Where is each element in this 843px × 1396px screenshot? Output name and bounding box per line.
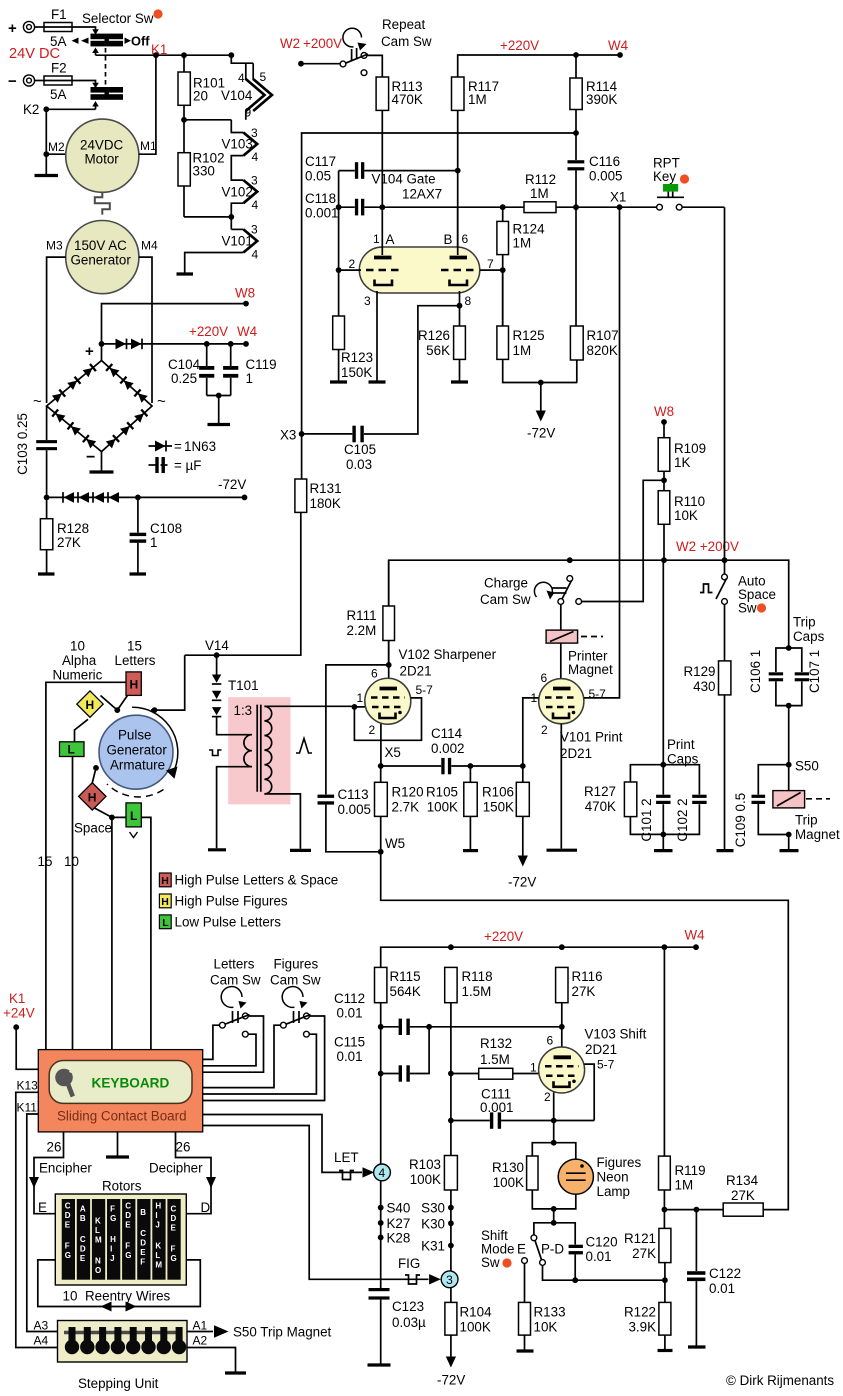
stepping magnet 6 xyxy=(141,1327,155,1354)
svg-text:L: L xyxy=(95,1226,100,1235)
fuse F2 xyxy=(35,61,72,103)
svg-text:4: 4 xyxy=(238,71,245,85)
svg-text:3: 3 xyxy=(446,1273,453,1287)
T101 primary xyxy=(217,717,252,849)
svg-text:10: 10 xyxy=(64,854,79,869)
svg-text:~: ~ xyxy=(33,393,42,410)
resistor R131 xyxy=(217,434,342,655)
svg-text:F1: F1 xyxy=(51,7,67,22)
svg-text:Magnet: Magnet xyxy=(795,827,840,842)
node K2 xyxy=(43,106,49,112)
svg-text:15: 15 xyxy=(38,854,53,869)
node -72V end xyxy=(242,495,248,501)
orange dot auto space xyxy=(757,603,766,612)
figures cam bars xyxy=(294,1011,300,1023)
svg-text:+200V: +200V xyxy=(303,36,342,51)
node R121 R122 xyxy=(662,1277,668,1283)
svg-text:5A: 5A xyxy=(50,87,66,102)
svg-text:E: E xyxy=(125,1221,131,1230)
wire W2 to repeat cam switch xyxy=(301,63,340,65)
svg-text:Charge: Charge xyxy=(484,576,528,591)
node pin2 C111 xyxy=(551,1118,557,1124)
svg-text:0.001: 0.001 xyxy=(480,1100,514,1115)
node -72V junction xyxy=(538,380,544,386)
svg-text:1M: 1M xyxy=(513,343,532,358)
wire yellow diamond to rim dot xyxy=(101,696,118,711)
terminal - (24V DC negative) xyxy=(8,73,35,90)
wire X1 row xyxy=(364,206,724,208)
svg-text:1N63: 1N63 xyxy=(184,439,216,454)
wire C117 C118 left link xyxy=(338,171,340,208)
wire F2 to selector switch lower xyxy=(72,81,96,85)
svg-text:+: + xyxy=(85,343,94,360)
node caps join xyxy=(216,393,222,399)
svg-text:−: − xyxy=(86,449,95,466)
wire V103 pin5-7 box xyxy=(584,1064,594,1120)
node trip caps bottom xyxy=(786,703,792,709)
wire auto space to R129 xyxy=(724,604,726,661)
svg-text:27K: 27K xyxy=(572,984,596,999)
ground R123 xyxy=(330,380,347,383)
contact H figures (yellow diamond) xyxy=(77,691,103,717)
svg-text:C: C xyxy=(171,1205,177,1214)
selector switch Sw1 lower section xyxy=(91,83,124,100)
legend capacitor uF xyxy=(149,457,202,473)
V104 pin6 lead xyxy=(457,207,459,255)
svg-text:V104: V104 xyxy=(221,88,253,103)
svg-text:150K: 150K xyxy=(483,800,514,815)
svg-text:-72V: -72V xyxy=(508,875,536,890)
V101 internals xyxy=(545,689,578,719)
orange dot selector xyxy=(153,9,162,18)
svg-text:10K: 10K xyxy=(674,508,698,523)
resistor R134 xyxy=(723,1173,763,1216)
wire charge to printer magnet xyxy=(560,604,562,630)
svg-text:H: H xyxy=(161,875,169,887)
T101 core xyxy=(257,705,261,792)
svg-text:C122: C122 xyxy=(709,1266,741,1281)
node armature rim bottom-left xyxy=(93,765,99,771)
resistor R130 xyxy=(492,1156,554,1209)
svg-text:1M: 1M xyxy=(513,236,532,251)
svg-text:Print: Print xyxy=(667,737,695,752)
svg-text:E: E xyxy=(65,1221,71,1230)
wire +220V bottom rail xyxy=(381,947,696,967)
terminal + (24V DC positive) xyxy=(8,20,35,37)
legend H high pulse figures xyxy=(159,894,288,909)
wire letters upper contact to keyboard xyxy=(203,1016,264,1072)
node C118 left xyxy=(336,204,342,210)
svg-text:~: ~ xyxy=(157,393,166,410)
svg-text:V103: V103 xyxy=(222,137,253,152)
node K31 xyxy=(448,1243,454,1249)
arrow LET xyxy=(363,1167,375,1177)
node pin8 xyxy=(457,303,463,309)
pulse glyph auto space xyxy=(700,584,713,593)
svg-text:R110: R110 xyxy=(674,494,705,509)
diode D7 xyxy=(212,655,221,684)
capacitor C102 xyxy=(675,795,707,842)
node pin1 line X1 row xyxy=(379,204,385,210)
ground R133 xyxy=(517,1349,534,1352)
svg-text:G: G xyxy=(171,1254,177,1263)
wire selector to K1 rail xyxy=(95,50,97,55)
svg-text:D: D xyxy=(125,1211,131,1220)
svg-text:R118: R118 xyxy=(462,969,493,984)
wire M3 to bridge left xyxy=(47,257,66,403)
svg-text:26: 26 xyxy=(47,1140,62,1155)
svg-text:150K: 150K xyxy=(341,365,372,380)
node S50 xyxy=(786,762,792,768)
svg-text:K: K xyxy=(95,1217,101,1226)
svg-text:R122: R122 xyxy=(624,1305,656,1320)
diode D2 xyxy=(131,339,142,350)
svg-text:2: 2 xyxy=(369,723,376,737)
svg-text:Trip: Trip xyxy=(795,813,818,828)
arrow -72V V104 xyxy=(527,383,555,441)
wire heater chain junction to V103 xyxy=(231,120,243,133)
capacitor C104 xyxy=(168,344,214,396)
svg-text:27K: 27K xyxy=(731,1188,755,1203)
rotor column 2 xyxy=(77,1199,90,1280)
spike glyph T101 right xyxy=(296,739,312,754)
svg-text:R127: R127 xyxy=(584,784,616,799)
svg-text:K30: K30 xyxy=(421,1216,445,1231)
svg-text:R116: R116 xyxy=(572,969,603,984)
resistor R120 xyxy=(375,766,424,852)
svg-text:Caps: Caps xyxy=(793,629,825,644)
svg-text:M4: M4 xyxy=(141,239,158,253)
node C112 right link xyxy=(426,1024,432,1030)
svg-text:J: J xyxy=(155,1221,159,1230)
node R114 bottom xyxy=(573,130,579,136)
svg-text:H: H xyxy=(130,678,139,692)
ground T101 primary xyxy=(208,848,226,851)
svg-text:W4: W4 xyxy=(608,38,629,53)
svg-text:H: H xyxy=(88,790,97,804)
wire +220V top rail xyxy=(458,55,620,77)
svg-text:V103 Shift: V103 Shift xyxy=(585,1027,647,1042)
print caps frame xyxy=(630,765,699,835)
wire P-D contact down to row xyxy=(543,1265,665,1280)
svg-text:Cam Sw: Cam Sw xyxy=(270,973,321,988)
arrow -72V R104 xyxy=(437,1357,465,1388)
svg-text:+: + xyxy=(8,20,17,37)
node S40 xyxy=(378,1205,384,1211)
svg-text:27K: 27K xyxy=(632,1246,656,1261)
svg-text:V14: V14 xyxy=(205,638,229,653)
svg-text:Lamp: Lamp xyxy=(597,1184,631,1199)
svg-text:K2: K2 xyxy=(23,102,39,117)
node K30 xyxy=(448,1220,454,1226)
V104 pin8 lead xyxy=(459,291,461,306)
svg-text:56K: 56K xyxy=(426,343,450,358)
arrow decipher xyxy=(206,1177,216,1188)
wire X5 row xyxy=(381,765,523,767)
V103 internals xyxy=(545,1057,579,1087)
legend diode 1N63 xyxy=(149,439,217,454)
node W8 xyxy=(243,301,249,307)
svg-text:A: A xyxy=(80,1205,86,1214)
wire neon bottom xyxy=(554,1194,576,1209)
svg-text:Figures: Figures xyxy=(274,957,319,972)
svg-text:R105: R105 xyxy=(426,785,458,800)
svg-text:0.001: 0.001 xyxy=(305,206,339,221)
wire H box to rim dot xyxy=(117,695,127,710)
wire C105 to pin8 xyxy=(364,306,460,434)
svg-text:Motor: Motor xyxy=(85,152,120,167)
svg-text:T101: T101 xyxy=(228,678,259,693)
svg-text:Numeric: Numeric xyxy=(53,668,103,683)
node R114 top xyxy=(573,52,579,58)
svg-text:W8: W8 xyxy=(235,286,255,301)
resistor R106 xyxy=(482,766,529,858)
V104 triode A internals xyxy=(366,258,399,286)
svg-text:R126: R126 xyxy=(418,328,450,343)
svg-text:F: F xyxy=(140,1258,145,1267)
svg-text:8: 8 xyxy=(465,294,472,308)
node shift switch top xyxy=(551,1220,557,1226)
capacitor C112 xyxy=(381,1019,562,1035)
svg-text:P-D: P-D xyxy=(541,1242,564,1257)
node R118 top xyxy=(448,944,454,950)
wire -72V diode string xyxy=(47,496,245,498)
ground V104 pin3 xyxy=(369,380,386,383)
svg-text:20: 20 xyxy=(193,89,208,104)
wire M4 to bridge right xyxy=(139,257,152,403)
svg-text:9: 9 xyxy=(245,106,252,120)
orange dot shift xyxy=(502,1258,511,1267)
node X5 xyxy=(378,763,384,769)
letters cam bars xyxy=(233,1011,239,1023)
svg-text:W8: W8 xyxy=(654,404,674,419)
tube V102 body xyxy=(388,665,390,681)
svg-text:FIG: FIG xyxy=(398,1256,420,1271)
wire decipher bracket xyxy=(176,1132,212,1214)
resistor R123 xyxy=(333,270,373,380)
node rail R110 xyxy=(661,557,667,563)
capacitor C113 xyxy=(318,787,381,852)
wire space node to L box2 and keyboard xyxy=(112,817,126,1049)
svg-text:O: O xyxy=(95,1266,101,1275)
arrow S50 trip magnet xyxy=(214,1325,229,1337)
svg-text:C: C xyxy=(80,1235,86,1244)
trip caps frame xyxy=(776,648,802,706)
repeat cam switch xyxy=(340,28,368,75)
svg-text:D: D xyxy=(80,1245,86,1254)
wire reentry bracket xyxy=(38,1260,201,1307)
svg-text:0.005: 0.005 xyxy=(589,169,623,184)
svg-text:0.01: 0.01 xyxy=(337,1049,363,1064)
svg-text:R130: R130 xyxy=(492,1160,524,1175)
svg-text:2: 2 xyxy=(349,257,356,271)
pulse glyph T101 left xyxy=(209,750,222,756)
capacitor C123 xyxy=(369,1288,427,1364)
svg-text:R125: R125 xyxy=(513,328,545,343)
svg-text:Sliding Contact Board: Sliding Contact Board xyxy=(57,1109,187,1124)
wire F1 to selector switch xyxy=(72,27,96,31)
figures cam rotation xyxy=(282,987,307,1009)
svg-text:G: G xyxy=(125,1251,131,1260)
auto space switch xyxy=(716,574,727,604)
svg-text:C116: C116 xyxy=(589,154,620,169)
svg-text:Figures: Figures xyxy=(597,1155,642,1170)
pulse glyph LET xyxy=(339,1171,354,1180)
svg-text:1.5M: 1.5M xyxy=(462,984,492,999)
wire V14 to armature contact xyxy=(151,655,217,710)
svg-text:R119: R119 xyxy=(675,1163,706,1178)
svg-text:D: D xyxy=(140,1239,146,1248)
svg-text:X5: X5 xyxy=(385,745,401,760)
wire H letters box left to keyboard xyxy=(46,682,126,1049)
wire RPT to auto space switch xyxy=(724,207,726,574)
svg-text:D: D xyxy=(171,1214,177,1223)
transformer T101 pink block xyxy=(228,697,290,804)
resistor R119 xyxy=(659,947,706,1228)
svg-text:R132: R132 xyxy=(480,1036,512,1051)
svg-text:A4: A4 xyxy=(34,1334,49,1348)
svg-text:6: 6 xyxy=(541,671,548,685)
svg-text:S40: S40 xyxy=(387,1201,411,1216)
bridge diodes bottom-left edge xyxy=(83,435,96,448)
wire H diamond to space node xyxy=(95,808,112,817)
capacitor C114 xyxy=(431,726,465,774)
svg-text:N: N xyxy=(95,1257,101,1266)
svg-text:E: E xyxy=(80,1254,86,1263)
svg-text:K31: K31 xyxy=(421,1239,445,1254)
resistor R109 xyxy=(658,422,706,491)
svg-text:C: C xyxy=(65,1202,71,1211)
svg-text:V101: V101 xyxy=(222,234,253,249)
svg-text:E: E xyxy=(140,1248,146,1257)
node W4 bottom xyxy=(693,944,699,950)
svg-text:J: J xyxy=(110,1254,114,1263)
svg-text:K28: K28 xyxy=(387,1231,411,1246)
node R132 left xyxy=(448,1071,454,1077)
V104 pin2 wire xyxy=(339,207,361,270)
svg-text:High Pulse Letters & Space: High Pulse Letters & Space xyxy=(175,873,339,888)
letters cam switch contacts xyxy=(220,1013,250,1037)
svg-text:150V AC: 150V AC xyxy=(74,238,127,253)
wire print caps vertical from rail xyxy=(662,560,664,765)
wire repeat switch to R113 xyxy=(367,55,383,77)
arrow FIG xyxy=(429,1274,441,1284)
svg-text:6: 6 xyxy=(547,1034,554,1048)
svg-text:2D21: 2D21 xyxy=(400,664,432,679)
svg-text:0.002: 0.002 xyxy=(431,741,465,756)
svg-text:Armature: Armature xyxy=(110,758,165,773)
ground C123 xyxy=(368,1363,391,1366)
svg-text:10K: 10K xyxy=(534,1320,558,1335)
svg-text:15: 15 xyxy=(127,639,142,654)
wire printer magnet to V101 pin6 xyxy=(560,643,562,680)
capacitor C120 xyxy=(569,1235,618,1281)
capacitor C107 xyxy=(795,650,822,693)
wire figures lower contact to keyboard xyxy=(203,1034,317,1094)
diode D1 xyxy=(116,339,127,350)
capacitor C122 xyxy=(687,1210,741,1346)
node K1 bottom xyxy=(13,1024,19,1030)
connector V102 heater (pins 3,4) xyxy=(222,174,259,213)
wire A2 to ground xyxy=(187,1348,236,1372)
svg-text:5-7: 5-7 xyxy=(416,683,434,697)
svg-text:A2: A2 xyxy=(193,1334,208,1348)
node R109 R110 xyxy=(661,477,667,483)
svg-text:L: L xyxy=(68,743,75,757)
wire V14 rim stub xyxy=(151,709,157,711)
svg-text:R104: R104 xyxy=(460,1305,493,1320)
svg-text:W2 +200V: W2 +200V xyxy=(676,539,739,554)
svg-text:3: 3 xyxy=(364,294,371,308)
svg-text:2D21: 2D21 xyxy=(585,1042,617,1057)
contact H space (red diamond) xyxy=(79,783,106,810)
resistor R128 xyxy=(40,497,89,572)
resistor R127 xyxy=(584,782,637,817)
relay trip magnet xyxy=(773,791,830,808)
node R124 top xyxy=(500,204,506,210)
svg-text:1M: 1M xyxy=(675,1178,694,1193)
svg-text:R109: R109 xyxy=(674,441,706,456)
svg-text:27K: 27K xyxy=(57,535,81,550)
svg-text:I: I xyxy=(155,1211,157,1220)
svg-text:Low Pulse Letters: Low Pulse Letters xyxy=(175,915,282,930)
bridge diodes top-left edge xyxy=(52,390,65,403)
wire rim to H diamond xyxy=(92,768,96,783)
svg-text:Sw: Sw xyxy=(738,601,757,616)
node R106 top xyxy=(520,763,526,769)
wire letters lower contact to keyboard xyxy=(203,1034,256,1066)
wire R101 bottom to heater chain xyxy=(184,119,231,121)
svg-text:2.2M: 2.2M xyxy=(347,623,377,638)
svg-text:Cam Sw: Cam Sw xyxy=(381,34,432,49)
svg-text:390K: 390K xyxy=(586,92,617,107)
svg-text:C108: C108 xyxy=(150,521,182,536)
wire R119 node to R134 xyxy=(664,1209,723,1211)
svg-text:5-7: 5-7 xyxy=(597,1058,615,1072)
svg-text:R106: R106 xyxy=(482,785,514,800)
svg-text:0.01: 0.01 xyxy=(337,1006,363,1021)
contact H letters (red box) xyxy=(126,672,141,696)
ground below R128 xyxy=(38,572,55,575)
svg-text:−: − xyxy=(8,73,17,90)
svg-text:M3: M3 xyxy=(46,239,63,253)
resistor R114 xyxy=(570,55,618,160)
svg-text:820K: 820K xyxy=(587,343,618,358)
capacitor C106 xyxy=(748,650,783,693)
node C120 bottom xyxy=(572,1277,578,1283)
svg-text:1:3: 1:3 xyxy=(234,703,253,718)
svg-text:Key: Key xyxy=(653,169,676,184)
figures cam switch contacts xyxy=(281,1013,311,1037)
svg-text:V102 Sharpener: V102 Sharpener xyxy=(399,647,497,662)
ground C122 xyxy=(688,1345,706,1348)
wire V101 pin5-7 to X1 line xyxy=(584,207,620,698)
svg-text:2: 2 xyxy=(544,1090,551,1104)
wire M1 to K1 xyxy=(139,55,156,154)
ground below M2 xyxy=(35,174,59,177)
wire V101 pin1 to X5 xyxy=(523,698,539,766)
svg-text:© Dirk Rijmenants: © Dirk Rijmenants xyxy=(726,1373,834,1388)
svg-text:10: 10 xyxy=(70,639,85,654)
keyboard ground xyxy=(117,1132,119,1156)
node R119 top xyxy=(662,944,668,950)
node X1 xyxy=(617,204,623,210)
svg-text:K11: K11 xyxy=(17,1101,38,1115)
svg-text:4: 4 xyxy=(379,1166,386,1180)
svg-text:330: 330 xyxy=(193,164,215,179)
svg-text:R129: R129 xyxy=(683,664,715,679)
diode D5 xyxy=(93,492,104,503)
